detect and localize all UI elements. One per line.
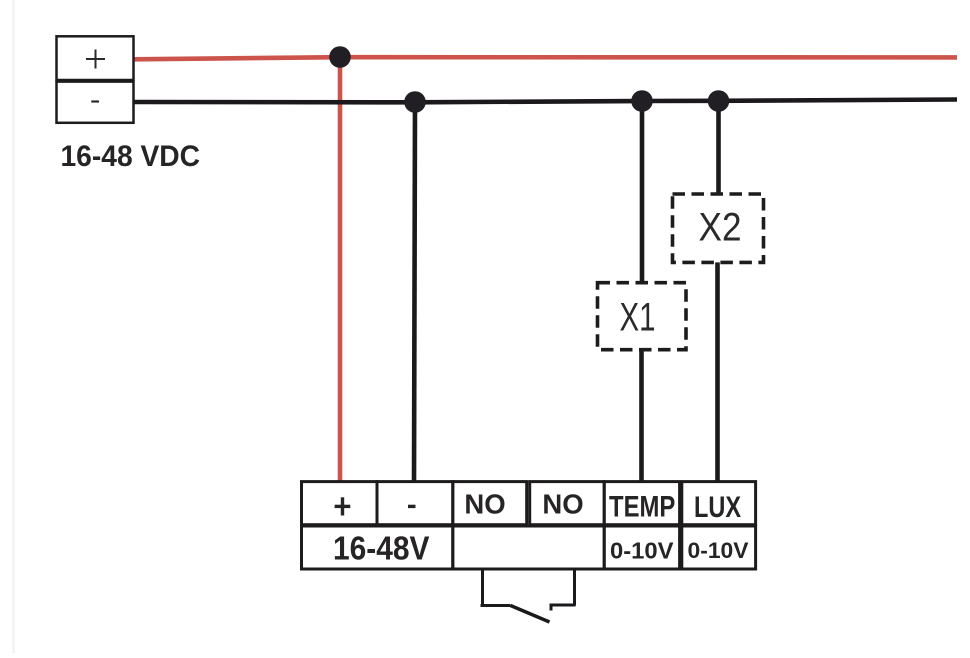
svg-text:TEMP: TEMP [609,491,675,524]
supply terminal box + cell [57,36,134,80]
wire black vertical (- to terminal) [414,102,415,484]
supply terminal box - cell [57,82,134,123]
switch contact left lead [481,569,484,607]
svg-text:X1: X1 [620,296,656,340]
terminal block cell relay (empty) [453,526,604,569]
terminal block cell - [377,482,453,525]
wire black horizontal (- bus) [134,100,958,103]
svg-text:LUX: LUX [694,491,741,524]
terminal block cell 16-48V [302,526,453,569]
wire black vertical (X1 to TEMP) [639,349,644,483]
junction dot (- bus / TEMP drop) [631,90,653,112]
svg-text:0-10V: 0-10V [688,538,749,563]
junction dot (- bus / LUX drop) [708,90,730,112]
terminal block cell LUX [682,482,756,525]
svg-text:0-10V: 0-10V [610,538,674,564]
terminal - symbol [408,505,416,508]
supply + symbol [86,50,105,69]
switch contact right lead [573,569,576,606]
X1 dashed box [598,283,687,350]
terminal block cell + [302,482,378,525]
terminal block cell 0-10V (TEMP) [604,526,679,569]
wire black vertical (bus to X1) [640,102,645,285]
terminal block cell 0-10V (LUX) [682,526,756,569]
supply - symbol [91,100,99,102]
svg-text:16-48 VDC: 16-48 VDC [61,140,201,173]
switch contact left bar [481,604,511,607]
switch blade [511,606,550,623]
terminal block cell NO 1 [453,482,527,525]
svg-text:NO: NO [464,489,505,520]
X2 dashed box [673,194,764,262]
faint page edge line [13,0,15,653]
terminal block cell TEMP [604,482,679,525]
wire black vertical (X2 to LUX) [715,261,720,483]
terminal block cell NO 2 [530,482,605,525]
wire red horizontal (+ bus) [134,57,958,59]
wire red vertical (+ feed) [338,55,343,483]
wire black vertical (bus to X2) [716,102,721,197]
switch contact right bar [551,605,576,611]
svg-text:16-48V: 16-48V [333,531,430,568]
junction dot (- bus / - drop) [404,91,426,113]
svg-text:X2: X2 [699,206,742,250]
terminal + symbol [335,497,351,515]
svg-text:NO: NO [542,489,583,520]
junction dot (red bus / + drop) [329,46,351,68]
